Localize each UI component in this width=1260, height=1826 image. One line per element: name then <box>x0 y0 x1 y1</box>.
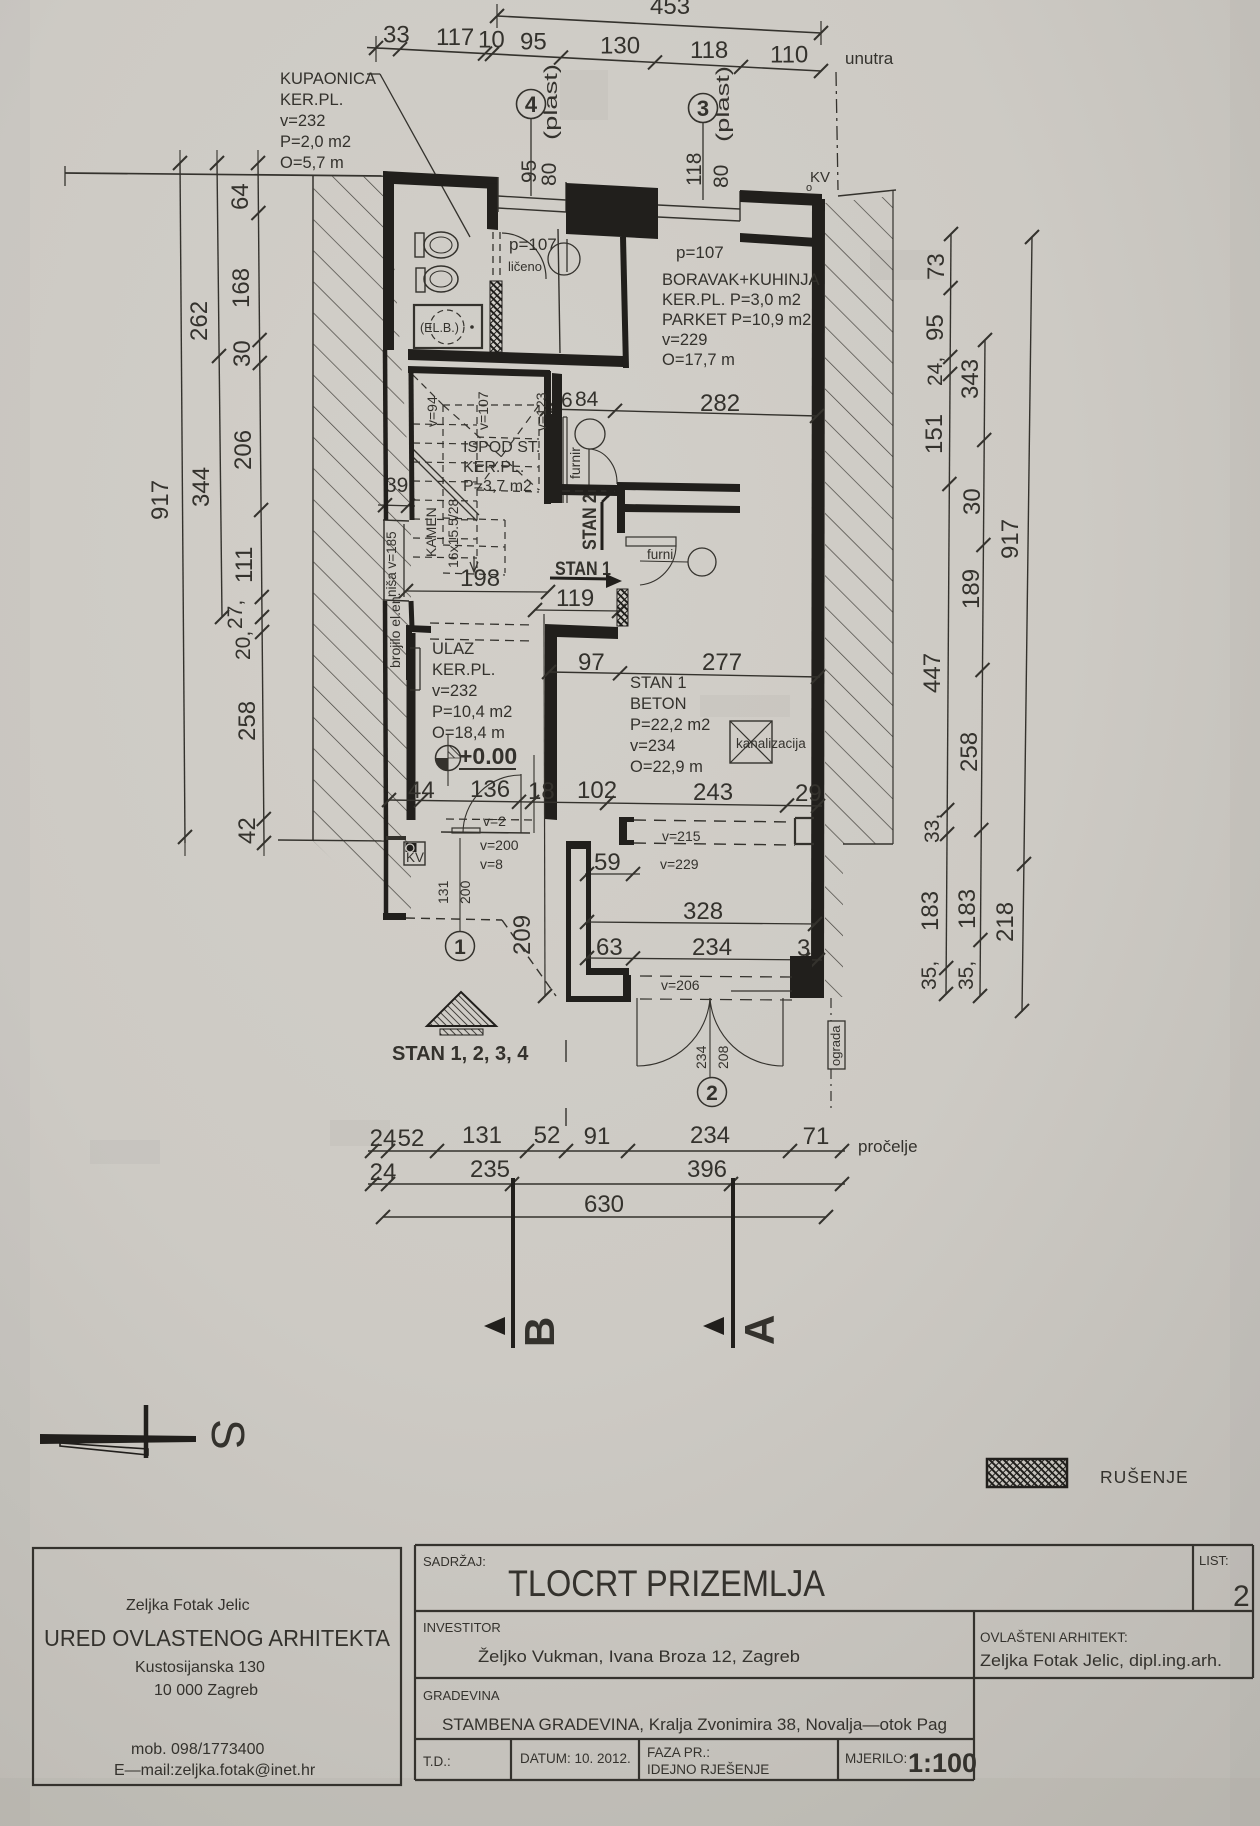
svg-text:IDEJNO RJEŠENJE: IDEJNO RJEŠENJE <box>647 1762 769 1777</box>
wall below STAN2 door <box>561 484 617 496</box>
level symbol +0.00 <box>436 746 461 771</box>
svg-text:262: 262 <box>186 301 213 341</box>
svg-text:pročelje: pročelje <box>858 1137 918 1156</box>
svg-text:343: 343 <box>957 359 984 399</box>
wall top bathroom (exterior north wall left segment) <box>383 171 498 189</box>
svg-text:brojilo el.en.: brojilo el.en. <box>387 593 403 669</box>
dim chain bottom row1: 24 52 131 52 91 234 71 <box>368 1150 845 1152</box>
right chain R1 <box>946 234 951 994</box>
axis circle 4 <box>517 90 546 119</box>
svg-text:24: 24 <box>370 1125 397 1152</box>
svg-text:ISPOD ST.: ISPOD ST. <box>463 439 540 456</box>
wall top right segment 110 <box>740 190 822 206</box>
svg-text:mob. 098/1773400: mob. 098/1773400 <box>131 1741 265 1758</box>
svg-text:282: 282 <box>700 390 740 417</box>
svg-text:KER.PL.: KER.PL. <box>280 91 343 109</box>
svg-text:v=232: v=232 <box>432 682 477 700</box>
svg-text:243: 243 <box>693 779 733 806</box>
svg-text:Zeljka Fotak Jelic: Zeljka Fotak Jelic <box>126 1597 250 1614</box>
ghost bleed-through marks <box>90 70 940 1164</box>
svg-text:(plast): (plast) <box>713 66 733 142</box>
svg-text:29: 29 <box>795 780 822 807</box>
south-east wall block <box>790 956 812 998</box>
svg-text:35,: 35, <box>918 961 941 990</box>
left chain middle 262 344 <box>217 163 222 617</box>
svg-text:KAMEN: KAMEN <box>423 507 439 557</box>
svg-text:Zeljka Fotak Jelic, dipl.in: Zeljka Fotak Jelic, dipl.ing.arh. <box>980 1651 1222 1670</box>
svg-text:S: S <box>202 1419 254 1450</box>
svg-text:O=17,7 m: O=17,7 m <box>662 351 735 369</box>
svg-text:KV: KV <box>406 850 424 865</box>
svg-text:INVESTITOR: INVESTITOR <box>423 1620 501 1635</box>
svg-text:v=229: v=229 <box>660 856 699 872</box>
svg-text:234: 234 <box>692 934 732 961</box>
wall STAN1 entry inner <box>625 504 740 513</box>
svg-text:198: 198 <box>460 565 500 592</box>
svg-text:STAMBENA GRADEVINA, Kralja: STAMBENA GRADEVINA, Kralja Zvonimira 38,… <box>442 1715 947 1734</box>
svg-text:111: 111 <box>231 547 258 583</box>
svg-text:KER.PL. P=3,0 m2: KER.PL. P=3,0 m2 <box>662 291 801 309</box>
svg-text:STAN 2: STAN 2 <box>580 494 601 550</box>
svg-text:235: 235 <box>470 1156 510 1183</box>
dashes v=206 + line <box>640 976 792 977</box>
axis circle 3 <box>689 94 718 123</box>
svg-text:PARKET P=10,9 m2: PARKET P=10,9 m2 <box>662 311 811 329</box>
svg-text:v=215: v=215 <box>662 828 701 844</box>
title block: architect box left <box>33 1548 401 1785</box>
wall foot bottom <box>383 913 406 920</box>
svg-text:v=123: v=123 <box>533 392 549 431</box>
section line B <box>511 1178 515 1348</box>
svg-text:2: 2 <box>706 1082 718 1105</box>
entrance door arc + leaf <box>520 774 522 833</box>
svg-text:328: 328 <box>683 898 723 925</box>
svg-text:GRADEVINA: GRADEVINA <box>423 1688 500 1703</box>
stairs dashed outline <box>443 404 539 406</box>
svg-text:10: 10 <box>478 26 505 53</box>
svg-text:73: 73 <box>923 253 950 280</box>
wall STAN1 entry north <box>617 482 740 533</box>
svg-text:unutra: unutra <box>845 49 894 68</box>
section axis stub <box>565 1108 567 1126</box>
svg-text:A: A <box>736 1315 783 1345</box>
wall east exterior (right) <box>811 199 825 998</box>
right wall niche <box>795 817 814 819</box>
svg-text:2: 2 <box>1233 1580 1250 1613</box>
svg-text:furni: furni <box>647 547 673 562</box>
svg-text:v=94: v=94 <box>424 396 440 427</box>
dim 119 <box>534 610 621 611</box>
dim 44 136 18 102 243 29 <box>389 800 822 806</box>
svg-text:59: 59 <box>594 849 621 876</box>
svg-text:131: 131 <box>435 880 451 904</box>
demolition block STAN1 door <box>617 589 628 626</box>
svg-text:OVLAŠTENI ARHITEKT:: OVLAŠTENI ARHITEKT: <box>980 1630 1128 1645</box>
svg-text:917: 917 <box>997 519 1024 559</box>
svg-text:396: 396 <box>687 1156 727 1183</box>
svg-text:71: 71 <box>803 1123 830 1150</box>
left wall inner face <box>411 373 412 520</box>
dim 97 277 <box>549 672 820 677</box>
svg-text:(plast): (plast) <box>541 64 561 140</box>
window reveal line below pier <box>566 239 568 272</box>
svg-text:1: 1 <box>454 936 466 959</box>
scan shading overlays <box>0 1778 1260 1826</box>
left chain 917 <box>180 163 185 843</box>
svg-text:24,: 24, <box>924 357 947 386</box>
svg-text:183: 183 <box>917 891 944 931</box>
svg-text:KER.PL.: KER.PL. <box>463 459 524 476</box>
svg-text:FAZA PR.:: FAZA PR.: <box>647 1745 710 1760</box>
svg-text:95: 95 <box>922 314 949 341</box>
svg-text:39: 39 <box>385 474 408 497</box>
axis line circle 1 <box>459 838 461 931</box>
svg-text:917: 917 <box>147 480 174 520</box>
svg-text:189: 189 <box>958 569 985 609</box>
door STAN2 leaf + arc + knob circle <box>575 419 605 449</box>
svg-text:ograda: ograda <box>828 1025 843 1066</box>
demolition block bathroom east <box>490 281 502 352</box>
right chain R3 <box>1022 237 1032 1012</box>
svg-text:27,: 27, <box>224 600 247 629</box>
svg-text:16x15.5/28: 16x15.5/28 <box>445 499 461 568</box>
svg-text:30: 30 <box>959 488 986 515</box>
niche [ bracket left <box>619 817 634 845</box>
svg-text:447: 447 <box>919 653 946 693</box>
svg-text:63: 63 <box>596 934 623 961</box>
svg-text:v=206: v=206 <box>661 977 700 993</box>
svg-text:200: 200 <box>457 880 473 904</box>
axis circle 2 <box>698 1078 727 1107</box>
svg-text:234: 234 <box>693 1045 709 1069</box>
svg-text:3: 3 <box>697 96 709 121</box>
left hatched strip <box>313 176 411 915</box>
svg-text:95: 95 <box>520 28 547 55</box>
bathroom door (dashed) <box>492 232 494 278</box>
svg-text:P=10,4 m2: P=10,4 m2 <box>432 703 512 721</box>
svg-text:Željko Vukman, Ivana Broza: Željko Vukman, Ivana Broza 12, Zagreb <box>478 1647 800 1666</box>
svg-text:STAN 1, 2, 3, 4: STAN 1, 2, 3, 4 <box>392 1043 529 1065</box>
left chain right 64..42 <box>258 163 264 843</box>
leader line KUPAONICA <box>367 73 380 75</box>
svg-text:v=229: v=229 <box>662 331 707 349</box>
axis dash-dot line right (unutra/KV) <box>836 72 838 190</box>
svg-text:6: 6 <box>561 389 573 412</box>
hatch strip bottom line <box>278 840 388 841</box>
window 95 <box>498 196 566 200</box>
svg-text:258: 258 <box>956 732 983 772</box>
door south (v=206) posts <box>623 975 631 1002</box>
svg-text:DATUM: 10. 2012.: DATUM: 10. 2012. <box>520 1751 631 1766</box>
svg-text:206: 206 <box>230 430 257 470</box>
svg-text:80: 80 <box>538 163 561 186</box>
svg-text:O=22,9 m: O=22,9 m <box>630 758 703 776</box>
svg-text:117: 117 <box>436 24 474 51</box>
dim 198 <box>406 591 549 592</box>
lobby partition line <box>558 229 560 353</box>
niša recess <box>383 520 409 521</box>
dashed site line bottom left <box>406 918 502 920</box>
WC 2 <box>416 268 425 292</box>
svg-text:277: 277 <box>702 649 742 676</box>
svg-text:KUPAONICA: KUPAONICA <box>280 70 376 88</box>
svg-text:35,: 35, <box>955 961 978 990</box>
svg-text:MJERILO:: MJERILO: <box>845 1751 907 1766</box>
svg-text:niša v=185: niša v=185 <box>384 531 399 597</box>
shower circle <box>548 243 580 275</box>
svg-text:84: 84 <box>575 388 599 411</box>
walls south STAN1 <box>566 841 591 998</box>
wall pier between windows (solid) <box>566 183 658 239</box>
axis circle 1 <box>446 932 475 961</box>
svg-text:E—mail:zeljka.fotak@inet.hr: E—mail:zeljka.fotak@inet.hr <box>114 1762 316 1779</box>
stair arrow down <box>473 556 475 570</box>
svg-text:v=107: v=107 <box>475 391 491 430</box>
svg-text:33,: 33, <box>921 814 944 843</box>
dashed line upper (gallery edge) <box>430 623 534 625</box>
svg-text:118: 118 <box>690 37 728 64</box>
el meter bracket <box>410 647 420 649</box>
svg-text:258: 258 <box>234 701 261 741</box>
svg-text:208: 208 <box>715 1045 731 1069</box>
svg-text:LIST:: LIST: <box>1199 1553 1229 1568</box>
title block main <box>415 1544 1253 1546</box>
stair stringer double diagonal <box>411 455 477 521</box>
dim 59 <box>585 873 640 875</box>
svg-text:BORAVAK+KUHINJA: BORAVAK+KUHINJA <box>662 271 820 289</box>
svg-text:209: 209 <box>509 915 536 955</box>
svg-text:+0.00: +0.00 <box>459 743 517 769</box>
svg-text:131: 131 <box>462 1122 502 1149</box>
svg-text:RUŠENJE: RUŠENJE <box>1100 1466 1189 1487</box>
svg-text:p=107: p=107 <box>676 243 724 262</box>
svg-text:URED OVLASTENOG ARHITEKTA: URED OVLASTENOG ARHITEKTA <box>44 1625 390 1651</box>
threshold dashes <box>562 490 615 492</box>
door STAN 2: frame <box>563 416 567 418</box>
svg-text:33: 33 <box>383 21 410 48</box>
corridor wall west of STAN2 door <box>551 414 553 503</box>
corridor wall east of stairs <box>552 373 562 503</box>
left wall outer face <box>385 350 386 520</box>
svg-text:130: 130 <box>600 33 640 60</box>
svg-text:v=2: v=2 <box>483 813 506 829</box>
svg-text:151: 151 <box>921 414 948 454</box>
svg-text:64: 64 <box>227 183 254 210</box>
svg-text:102: 102 <box>577 777 617 804</box>
svg-text:KER.PL.: KER.PL. <box>432 661 495 679</box>
svg-text:(EL.B.): (EL.B.) <box>420 321 459 335</box>
legend demolition swatch <box>987 1459 1067 1487</box>
svg-text:Kustosijanska 130: Kustosijanska 130 <box>135 1659 265 1676</box>
svg-text:v=232: v=232 <box>280 112 325 130</box>
dashes v=215 / v=229 <box>634 820 795 822</box>
svg-text:v=8: v=8 <box>480 856 503 872</box>
left site boundary line <box>312 176 314 841</box>
svg-text:91: 91 <box>584 1123 611 1150</box>
entrance double door arcs <box>636 998 638 1066</box>
wall ULAZ / corridor97 <box>545 624 618 820</box>
left wall entrance segment <box>407 633 416 820</box>
wall inner face below window 118 (BORAVAK north) <box>740 233 817 247</box>
stairwell north wall <box>408 366 550 377</box>
svg-text:v=200: v=200 <box>480 837 519 853</box>
svg-text:kanalizacija: kanalizacija <box>736 736 806 751</box>
svg-text:1:100: 1:100 <box>908 1748 977 1778</box>
svg-text:20,: 20, <box>232 631 255 660</box>
dim chain bottom row3: 630 <box>383 1216 826 1218</box>
bathroom window pier stub <box>487 183 498 230</box>
svg-text:10 000 Zagreb: 10 000 Zagreb <box>154 1682 258 1699</box>
svg-text:P=2,0 m2: P=2,0 m2 <box>280 133 351 151</box>
svg-text:44: 44 <box>408 777 435 804</box>
dim 63 234 3 <box>586 958 822 960</box>
svg-text:52: 52 <box>534 1122 561 1149</box>
stairwell east wall <box>544 371 551 504</box>
entrance door area <box>446 819 534 820</box>
bathroom south wall <box>408 349 501 363</box>
svg-text:234: 234 <box>690 1122 730 1149</box>
svg-text:P=22,2 m2: P=22,2 m2 <box>630 716 710 734</box>
svg-text:42: 42 <box>234 817 261 844</box>
svg-text:136: 136 <box>470 776 510 803</box>
svg-text:183: 183 <box>954 889 981 929</box>
svg-text:KV: KV <box>810 169 830 186</box>
svg-text:SADRŽAJ:: SADRŽAJ: <box>423 1554 486 1569</box>
svg-text:168: 168 <box>228 268 255 308</box>
svg-text:v=234: v=234 <box>630 737 675 755</box>
KV box bottom <box>404 842 425 865</box>
svg-text:118: 118 <box>683 153 706 186</box>
door arc bathroom <box>502 233 546 279</box>
right hatched strip <box>825 196 893 997</box>
svg-text:STAN 1: STAN 1 <box>630 674 687 692</box>
svg-text:344: 344 <box>188 467 215 507</box>
dimension chain top 453 <box>497 16 821 33</box>
svg-text:52: 52 <box>398 1125 425 1152</box>
EL.B. boiler box <box>414 305 482 348</box>
svg-text:TLOCRT PRIZEMLJA: TLOCRT PRIZEMLJA <box>508 1563 825 1604</box>
svg-text:630: 630 <box>584 1191 624 1218</box>
svg-text:O=18,4 m: O=18,4 m <box>432 724 505 742</box>
kanalizacija box <box>730 721 772 763</box>
svg-text:119: 119 <box>556 585 594 612</box>
section line A <box>731 1178 735 1348</box>
svg-text:97: 97 <box>578 649 605 676</box>
bathroom west fixtures: WC 1 <box>415 233 424 257</box>
svg-text:B: B <box>516 1317 563 1347</box>
svg-text:18: 18 <box>528 778 555 805</box>
svg-text:218: 218 <box>992 902 1019 942</box>
dimension 6 84 282 <box>547 409 818 416</box>
svg-text:453: 453 <box>650 0 690 20</box>
corridor south wall to BORAVAK <box>501 352 623 367</box>
door STAN1: leaf rect + arc + circle <box>626 537 676 546</box>
ground line top <box>65 173 383 176</box>
window 118 <box>658 205 740 209</box>
dim chain bottom row2: 24 235 396 <box>368 1183 845 1185</box>
ograda box <box>828 1021 845 1069</box>
svg-text:T.D.:: T.D.: <box>423 1754 451 1769</box>
dimension chain top 33 117 10 95 130 118 110 <box>367 48 821 72</box>
roof symbol hatched triangle <box>427 992 496 1026</box>
svg-text:110: 110 <box>770 41 808 68</box>
svg-text:80: 80 <box>710 165 733 188</box>
right chain R2 <box>980 340 985 996</box>
svg-text:O=5,7 m: O=5,7 m <box>280 154 344 172</box>
svg-text:4: 4 <box>525 92 538 117</box>
svg-text:o: o <box>806 182 812 194</box>
svg-text:ličeno: ličeno <box>508 259 542 274</box>
svg-text:ULAZ: ULAZ <box>432 640 474 658</box>
svg-text:P=3,7 m2: P=3,7 m2 <box>463 478 532 495</box>
north arrow <box>40 1434 196 1444</box>
right strip top corner <box>838 190 896 196</box>
dim 328 <box>586 922 816 924</box>
svg-text:furnir: furnir <box>567 447 583 479</box>
svg-text:24: 24 <box>370 1159 397 1186</box>
svg-text:30: 30 <box>229 340 256 367</box>
wall BORAVAK west <box>620 237 629 368</box>
svg-text:p=107: p=107 <box>509 235 557 254</box>
svg-text:BETON: BETON <box>630 695 687 713</box>
